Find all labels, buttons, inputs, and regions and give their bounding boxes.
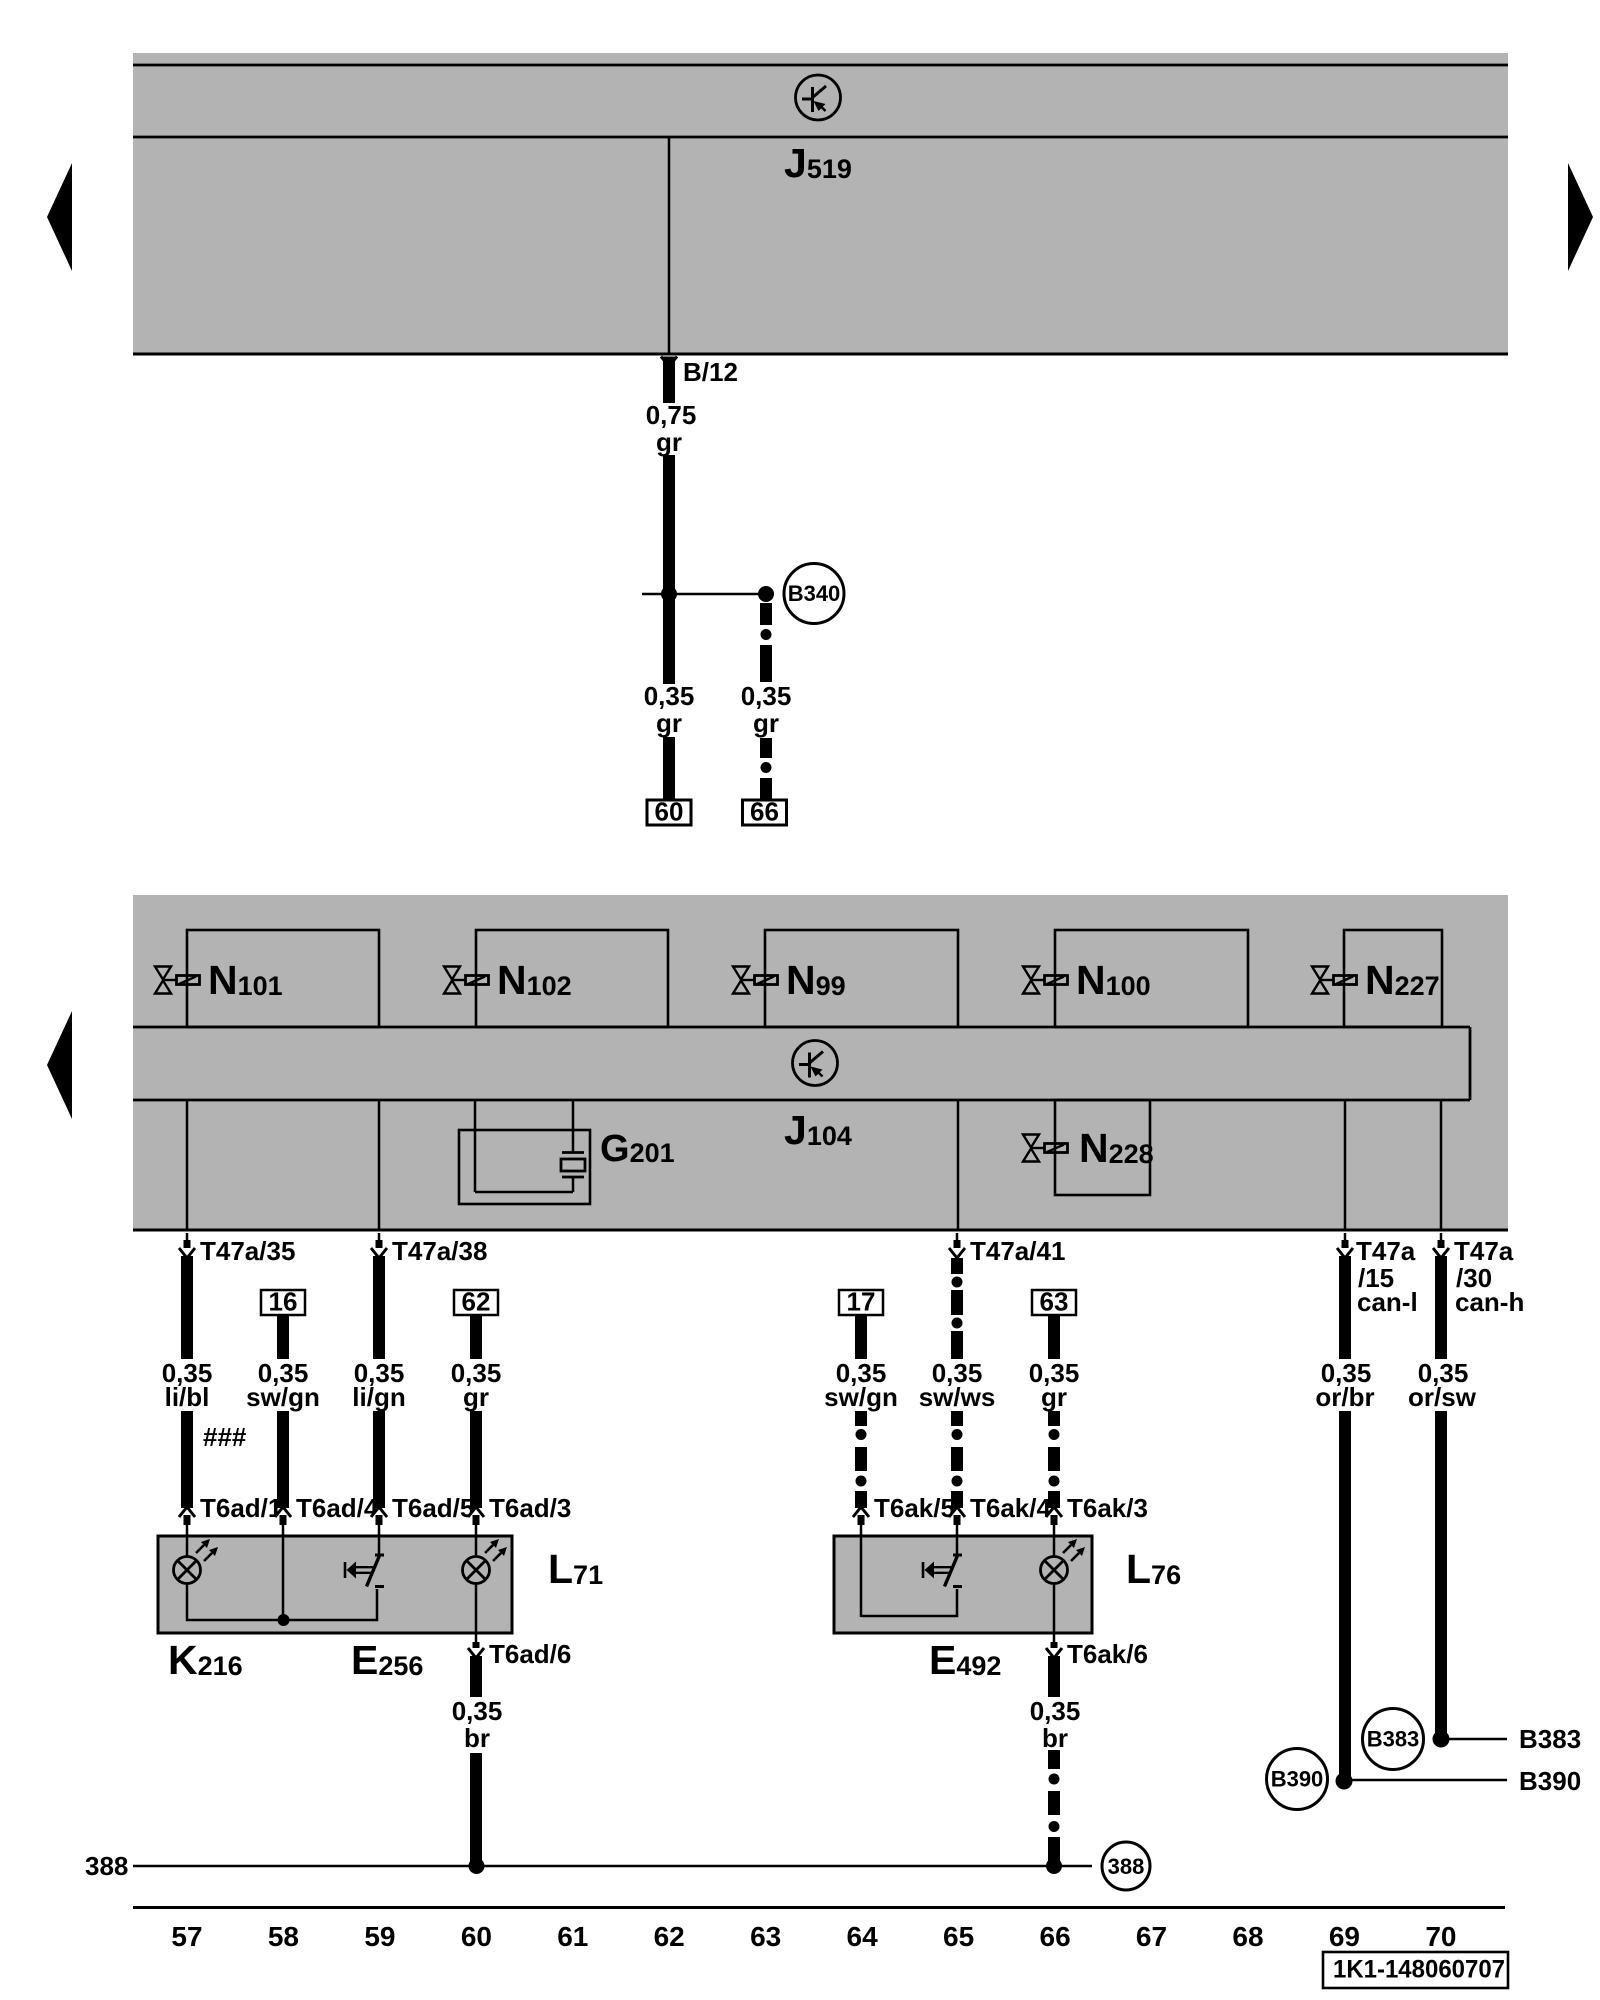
terminal box 62 bbox=[454, 1290, 498, 1315]
wire inside J104 to T47a/35 bbox=[186, 1100, 189, 1230]
svg-text:br: br bbox=[1042, 1723, 1068, 1753]
junction dot on 388 wire (right) bbox=[1046, 1858, 1062, 1874]
control unit symbol (J519) bbox=[796, 75, 841, 120]
junction dot B383 bbox=[1433, 1731, 1450, 1748]
svg-text:0,75: 0,75 bbox=[646, 400, 697, 430]
G201 loop bottom bbox=[475, 1191, 573, 1194]
wire inside J104 to T47a/38 bbox=[378, 1100, 381, 1230]
wire to switch E492 bottom bbox=[861, 1589, 957, 1616]
track numbers 57-70 bbox=[171, 1921, 1456, 1952]
wire 0,35 br upper (left) bbox=[470, 1656, 482, 1697]
svg-text:1K1-148060707: 1K1-148060707 bbox=[1333, 1956, 1505, 1984]
svg-text:T6ak/3: T6ak/3 bbox=[1067, 1493, 1148, 1523]
continuation arrow right (J519) bbox=[1568, 163, 1593, 271]
svg-text:388: 388 bbox=[1108, 1854, 1145, 1879]
G201 sensor element bbox=[562, 1151, 584, 1154]
switch unit box L76 bbox=[834, 1536, 1092, 1633]
svg-text:0,35: 0,35 bbox=[1030, 1696, 1081, 1726]
junction dot on main wire bbox=[661, 586, 677, 602]
wire sw/gn (E492) upper bbox=[855, 1315, 867, 1359]
actuation arrow E492 bbox=[923, 1562, 951, 1579]
wire to G201 right bbox=[572, 1100, 575, 1153]
pin arrow T6ad/3 bbox=[468, 1507, 484, 1517]
svg-text:B390: B390 bbox=[1271, 1767, 1324, 1792]
wire to B383 label bbox=[1449, 1738, 1507, 1741]
valve N228 bbox=[1023, 1135, 1068, 1162]
svg-text:br: br bbox=[464, 1723, 490, 1753]
terminal box 63 bbox=[1032, 1290, 1076, 1315]
wire inside L76 from T6ak/3 bbox=[1053, 1537, 1056, 1557]
wire inside L71 from T6ad/4 bbox=[282, 1537, 285, 1620]
svg-text:58: 58 bbox=[268, 1921, 299, 1952]
switch E256 bbox=[367, 1555, 385, 1587]
wire 0,35 br upper (right) bbox=[1048, 1656, 1060, 1697]
J104 internal bus band right edge bbox=[1469, 1027, 1472, 1100]
pin arrow T47a/41 bbox=[956, 1233, 959, 1247]
J104 internal bus band bottom line bbox=[133, 1099, 1470, 1102]
svg-text:B383: B383 bbox=[1519, 1724, 1581, 1754]
svg-text:li/bl: li/bl bbox=[165, 1382, 210, 1412]
wire gr lower bbox=[470, 1411, 482, 1508]
svg-text:T6ad/1: T6ad/1 bbox=[200, 1493, 282, 1523]
wire inside J104 to T47a/30 bbox=[1440, 1100, 1443, 1230]
svg-text:gr: gr bbox=[463, 1382, 489, 1412]
pin arrow T6ak/5 bbox=[853, 1507, 869, 1517]
wire sw/gn (E492) lower dashed bbox=[855, 1411, 867, 1426]
lamp K216 bbox=[174, 1539, 219, 1584]
svg-text:388: 388 bbox=[85, 1851, 128, 1881]
svg-text:17: 17 bbox=[847, 1287, 876, 1317]
svg-text:60: 60 bbox=[461, 1921, 492, 1952]
wire inside L76 from T6ak/4 bbox=[956, 1537, 959, 1554]
J519 second bus line bbox=[133, 136, 1508, 139]
terminal box 60 bbox=[647, 800, 691, 825]
terminal box 66 bbox=[743, 800, 787, 825]
junction dot on 388 wire (left) bbox=[469, 1858, 485, 1874]
wire or/br lower (CAN low) bbox=[1339, 1411, 1351, 1781]
pin arrow T47a/38 bbox=[378, 1233, 381, 1247]
wire inside L71 from T6ad/1 bbox=[186, 1537, 189, 1557]
svg-text:T47a: T47a bbox=[1356, 1236, 1416, 1266]
wire sw/ws lower dashed bbox=[951, 1411, 963, 1426]
svg-text:62: 62 bbox=[654, 1921, 685, 1952]
wire or/sw upper bbox=[1435, 1256, 1447, 1359]
svg-text:sw/gn: sw/gn bbox=[246, 1382, 320, 1412]
component box N102 bbox=[476, 930, 668, 1027]
junction dot B390 bbox=[1336, 1773, 1353, 1790]
svg-text:59: 59 bbox=[364, 1921, 395, 1952]
wire li/gn upper bbox=[373, 1256, 385, 1359]
wire from J519 pin B/12 (inside box) bbox=[668, 138, 671, 354]
wire 0,75 gr upper segment bbox=[663, 357, 675, 404]
svg-text:61: 61 bbox=[557, 1921, 588, 1952]
svg-text:can-h: can-h bbox=[1455, 1287, 1524, 1317]
svg-text:B383: B383 bbox=[1367, 1727, 1420, 1752]
control unit symbol (J104) bbox=[793, 1041, 838, 1086]
pin arrow T47a/15 bbox=[1344, 1233, 1347, 1247]
J104 bottom edge bbox=[133, 1229, 1508, 1232]
dashed branch wire lower bbox=[760, 738, 772, 758]
svg-text:sw/gn: sw/gn bbox=[824, 1382, 898, 1412]
svg-text:B340: B340 bbox=[788, 581, 841, 606]
wire inside J104 to T47a/15 bbox=[1344, 1100, 1347, 1230]
connector circle B340 bbox=[784, 564, 844, 624]
diagram id box bbox=[1323, 1952, 1508, 1988]
wire to B390 label bbox=[1352, 1779, 1507, 1782]
junction dot B340 branch bbox=[758, 586, 774, 602]
pin arrow T47a/35 bbox=[186, 1233, 189, 1247]
wire lamp K216 to junction bbox=[187, 1584, 377, 1620]
wire lamp to T6ad/6 bbox=[475, 1584, 478, 1643]
wire sw/ws upper dashed bbox=[951, 1258, 963, 1274]
svg-text:T47a/35: T47a/35 bbox=[200, 1236, 295, 1266]
pin arrow T6ak/3 bbox=[1046, 1507, 1062, 1517]
svg-text:T47a: T47a bbox=[1454, 1236, 1514, 1266]
svg-text:T6ad/6: T6ad/6 bbox=[489, 1639, 571, 1669]
pin arrow B/12 bbox=[661, 357, 677, 367]
svg-text:T6ad/3: T6ad/3 bbox=[489, 1493, 571, 1523]
component box N99 bbox=[765, 930, 958, 1027]
wire inside L76 from T6ak/5 bbox=[860, 1537, 863, 1617]
control unit J519 box bbox=[133, 53, 1508, 354]
wire or/br upper bbox=[1339, 1256, 1351, 1359]
pin arrow T6ad/1 bbox=[179, 1507, 195, 1517]
G201 sensor box bbox=[459, 1130, 590, 1204]
pin arrow T6ad/6 bbox=[473, 1642, 480, 1651]
pin arrow T6ak/6 bbox=[1051, 1642, 1058, 1651]
pin arrow T6ak/4 bbox=[949, 1507, 965, 1517]
wire 0,35 br lower (left) bbox=[470, 1753, 482, 1866]
svg-text:T6ad/4: T6ad/4 bbox=[296, 1493, 379, 1523]
pin arrow T6ad/5 bbox=[371, 1507, 387, 1517]
wire lamp to T6ak/6 bbox=[1053, 1584, 1056, 1643]
svg-text:0,35: 0,35 bbox=[741, 681, 792, 711]
pin arrow T6ad/4 bbox=[275, 1507, 291, 1517]
svg-text:66: 66 bbox=[750, 797, 779, 827]
svg-text:65: 65 bbox=[943, 1921, 974, 1952]
svg-text:or/sw: or/sw bbox=[1408, 1382, 1477, 1412]
svg-text:0,35: 0,35 bbox=[452, 1696, 503, 1726]
svg-text:T47a/41: T47a/41 bbox=[970, 1236, 1065, 1266]
J519 bottom edge bbox=[133, 353, 1508, 356]
svg-text:70: 70 bbox=[1425, 1921, 1456, 1952]
wire sw/gn upper bbox=[277, 1315, 289, 1359]
svg-text:67: 67 bbox=[1136, 1921, 1167, 1952]
svg-text:T6ak/4: T6ak/4 bbox=[970, 1493, 1051, 1523]
lamp L76 illumination bbox=[1041, 1539, 1086, 1584]
lamp L71 illumination bbox=[463, 1539, 508, 1584]
wire gr upper bbox=[470, 1315, 482, 1359]
svg-text:sw/ws: sw/ws bbox=[919, 1382, 996, 1412]
valve N100 bbox=[1023, 967, 1068, 994]
J519 top bus line bbox=[133, 64, 1508, 67]
svg-text:B/12: B/12 bbox=[683, 357, 738, 387]
valve N102 bbox=[444, 967, 489, 994]
continuation arrow left (J104) bbox=[47, 1011, 72, 1119]
svg-text:T6ak/5: T6ak/5 bbox=[874, 1493, 955, 1523]
wire li/bl lower bbox=[181, 1411, 193, 1508]
actuation arrow E256 bbox=[345, 1562, 373, 1579]
svg-text:can-l: can-l bbox=[1357, 1287, 1418, 1317]
component box N100 bbox=[1055, 930, 1248, 1027]
wire sw/gn lower bbox=[277, 1411, 289, 1508]
valve N101 bbox=[155, 967, 200, 994]
valve N99 bbox=[733, 967, 778, 994]
svg-text:16: 16 bbox=[269, 1287, 298, 1317]
svg-text:B390: B390 bbox=[1519, 1766, 1581, 1796]
component box N227 bbox=[1344, 930, 1442, 1027]
svg-text:or/br: or/br bbox=[1315, 1382, 1374, 1412]
svg-text:gr: gr bbox=[753, 708, 779, 738]
svg-text:gr: gr bbox=[1041, 1382, 1067, 1412]
svg-text:gr: gr bbox=[656, 427, 682, 457]
wire gr (E492) upper bbox=[1048, 1315, 1060, 1359]
wire inside L71 from T6ad/5 bbox=[378, 1537, 381, 1554]
svg-text:62: 62 bbox=[462, 1287, 491, 1317]
wire to G201 left bbox=[474, 1100, 477, 1192]
terminal box 17 bbox=[839, 1290, 883, 1315]
continuation arrow left (J519) bbox=[47, 163, 72, 271]
wire or/sw lower (CAN high) bbox=[1435, 1411, 1447, 1739]
connector circle 388 bbox=[1102, 1842, 1150, 1890]
svg-text:li/gn: li/gn bbox=[352, 1382, 405, 1412]
svg-text:60: 60 bbox=[655, 797, 684, 827]
wire inside L71 from T6ad/3 bbox=[475, 1537, 478, 1557]
junction dot inside L71 bbox=[278, 1614, 290, 1626]
wire li/bl upper bbox=[181, 1256, 193, 1359]
bottom frame line bbox=[133, 1906, 1505, 1909]
svg-text:63: 63 bbox=[1040, 1287, 1069, 1317]
wire 0,75 gr lower segment bbox=[663, 455, 675, 684]
svg-text:69: 69 bbox=[1329, 1921, 1360, 1952]
ground wire 388 bbox=[133, 1865, 1092, 1868]
control unit J104 box bbox=[133, 895, 1508, 1230]
terminal box 16 bbox=[261, 1290, 305, 1315]
wire gr (E492) lower dashed bbox=[1048, 1411, 1060, 1426]
switch E492 bbox=[945, 1555, 963, 1587]
svg-text:57: 57 bbox=[171, 1921, 202, 1952]
svg-text:T6ak/6: T6ak/6 bbox=[1067, 1639, 1148, 1669]
connector circle B390 bbox=[1267, 1749, 1328, 1810]
svg-text:gr: gr bbox=[656, 708, 682, 738]
switch unit box L71 bbox=[158, 1536, 512, 1633]
svg-text:63: 63 bbox=[750, 1921, 781, 1952]
svg-text:T47a/38: T47a/38 bbox=[392, 1236, 487, 1266]
svg-text:64: 64 bbox=[847, 1921, 879, 1952]
component box N101 bbox=[187, 930, 379, 1027]
svg-text:###: ### bbox=[203, 1422, 247, 1452]
svg-text:T6ad/5: T6ad/5 bbox=[392, 1493, 474, 1523]
connector circle B383 bbox=[1363, 1709, 1424, 1770]
wire to terminal 60 bbox=[663, 737, 675, 800]
svg-text:66: 66 bbox=[1040, 1921, 1071, 1952]
valve N227 bbox=[1312, 967, 1357, 994]
component box N228 bbox=[1055, 1100, 1150, 1195]
dashed branch wire upper bbox=[760, 603, 772, 625]
wire li/gn lower bbox=[373, 1411, 385, 1508]
wire inside J104 to T47a/41 bbox=[957, 1100, 960, 1230]
svg-text:0,35: 0,35 bbox=[644, 681, 695, 711]
svg-text:68: 68 bbox=[1232, 1921, 1263, 1952]
wire 0,35 br lower (right) dashed bbox=[1048, 1750, 1060, 1769]
pin arrow T47a/30 bbox=[1440, 1233, 1443, 1247]
J104 internal bus band top line bbox=[133, 1026, 1470, 1029]
junction line to B340 bbox=[642, 593, 766, 596]
